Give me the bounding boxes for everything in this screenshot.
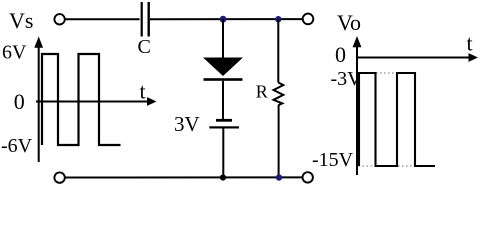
Vo square waveform <box>359 73 435 166</box>
wire resistor to bottom <box>278 105 280 178</box>
wire junction to diode <box>222 19 224 57</box>
wire junction to resistor <box>277 19 279 82</box>
battery 3V <box>216 119 232 122</box>
bottom wire <box>65 176 303 178</box>
wire top-left to capacitor <box>65 18 140 20</box>
svg-text:Vo: Vo <box>337 10 361 35</box>
svg-text:R: R <box>256 82 268 102</box>
Vo vertical axis <box>356 46 358 175</box>
Vs time axis <box>36 101 147 103</box>
svg-text:-6V: -6V <box>1 135 33 157</box>
wire diode to battery <box>222 81 224 119</box>
svg-text:t: t <box>140 79 146 104</box>
svg-text:t: t <box>467 31 473 56</box>
terminal bottom-right <box>303 172 313 182</box>
Vs vertical axis <box>38 46 40 162</box>
svg-text:Vs: Vs <box>9 8 33 33</box>
dotted guide -15V level middle <box>398 165 414 167</box>
Vs square waveform <box>42 54 121 145</box>
node junction top (resistor branch) <box>275 16 281 22</box>
capacitor C <box>141 2 143 37</box>
svg-text:0: 0 <box>335 42 346 67</box>
terminal top-left <box>54 14 64 24</box>
diode D (cathode down) <box>203 58 243 77</box>
terminal bottom-left <box>54 172 64 182</box>
dotted guide -3V level <box>376 72 396 74</box>
svg-text:0: 0 <box>14 89 25 114</box>
node junction bottom (diode branch) <box>220 174 226 180</box>
node junction bottom (resistor branch) <box>276 174 282 180</box>
wire capacitor to top-right terminal <box>150 18 303 20</box>
dotted guide -15V level left <box>359 165 376 167</box>
svg-text:-15V: -15V <box>312 149 354 171</box>
svg-text:3V: 3V <box>174 112 200 136</box>
svg-text:6V: 6V <box>2 42 27 64</box>
Vo time axis <box>357 57 469 59</box>
svg-text:C: C <box>138 36 151 58</box>
terminal top-right <box>303 14 314 25</box>
wire battery to bottom <box>222 129 224 178</box>
resistor R zigzag <box>274 83 284 106</box>
node junction top (diode branch) <box>220 16 227 23</box>
